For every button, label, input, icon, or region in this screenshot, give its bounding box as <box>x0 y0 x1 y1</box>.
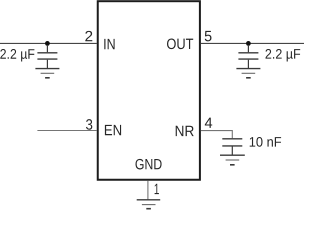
IC body U1 <box>98 1 200 180</box>
capacitor C2 output 2.2uF <box>238 45 258 68</box>
label C1 value 2.2 uF <box>0 49 34 62</box>
ground for C2 <box>236 69 260 78</box>
pin number 3 <box>86 119 92 130</box>
wire NR to capacitor C3 <box>201 131 232 139</box>
wire IN input net <box>0 42 97 44</box>
wire EN stub <box>37 130 97 132</box>
label C2 value 2.2 uF <box>266 49 301 62</box>
pin number 2 <box>85 31 92 41</box>
pin label NR <box>176 126 194 136</box>
ground for C1 <box>35 69 59 78</box>
wire OUT output net <box>201 42 304 44</box>
wire GND pin 1 stub <box>147 181 149 200</box>
node output junction dot <box>246 41 251 46</box>
pin label EN <box>105 125 121 135</box>
ground for C3 <box>220 155 245 165</box>
pin label GND <box>136 159 162 170</box>
pin number 5 <box>205 31 212 41</box>
pin label IN <box>104 39 114 49</box>
ground for GND pin <box>137 200 161 209</box>
pin number 4 <box>205 118 212 128</box>
pin number 1 <box>155 184 159 194</box>
pin label OUT <box>167 39 193 50</box>
node input junction dot <box>45 41 50 46</box>
label C3 value 10 nF <box>250 137 281 147</box>
capacitor C1 input 2.2uF <box>37 45 57 68</box>
capacitor C3 noise-reduction 10 nF <box>222 139 242 155</box>
